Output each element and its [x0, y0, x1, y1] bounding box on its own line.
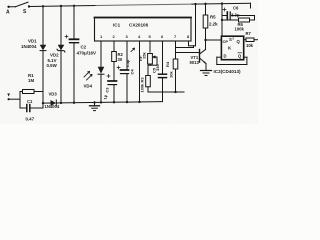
svg-text:C1: C1: [27, 99, 33, 104]
svg-text:3.3μ: 3.3μ: [125, 59, 130, 68]
svg-text:9013: 9013: [190, 60, 200, 65]
svg-text:1μ: 1μ: [103, 94, 108, 99]
svg-text:R4: R4: [165, 61, 170, 67]
svg-text:VD3: VD3: [49, 92, 58, 97]
resistor R7 10k output: [244, 39, 246, 41]
wire pin4: [139, 41, 141, 102]
wire Qbar to D feedback: [217, 56, 222, 58]
svg-text:10k: 10k: [169, 71, 174, 78]
svg-text:0.47: 0.47: [26, 117, 35, 122]
wire pin6: [162, 41, 164, 74]
capacitor C1 0.47: [20, 107, 27, 109]
capacitor C2 470u/16V electrolytic: [70, 38, 79, 40]
wire C6 column from rail: [221, 4, 223, 37]
switch S: [9, 6, 16, 8]
svg-text:C6: C6: [233, 6, 239, 11]
svg-text:CX20106: CX20106: [129, 23, 149, 28]
wire pin8 to rail: [188, 41, 190, 46]
wire pin1: [100, 41, 102, 67]
resistor R5 2.2k: [205, 4, 207, 15]
wire pin3: [126, 41, 128, 70]
zener diode VD2 5.1V 0.5W: [58, 45, 65, 51]
wire R3 R4 ground link: [148, 91, 184, 93]
svg-text:470μ/16V: 470μ/16V: [77, 51, 97, 56]
svg-text:100k: 100k: [235, 27, 245, 32]
svg-text:C4: C4: [130, 69, 135, 75]
svg-text:30: 30: [118, 57, 123, 62]
diode VD1 1N4004: [40, 45, 47, 51]
svg-text:330: 330: [155, 64, 160, 71]
svg-text:3.3μ: 3.3μ: [231, 13, 240, 18]
capacitor C5 330p: [159, 73, 167, 75]
IC U1: IC1 CX20106 receiver amplifier: [95, 18, 192, 42]
svg-text:R7: R7: [246, 31, 252, 36]
node B input terminal: [7, 94, 10, 97]
capacitor C3 1u electrolytic: [108, 80, 117, 82]
resistor R4 10k: [173, 59, 178, 69]
svg-text:1N4004: 1N4004: [45, 104, 60, 109]
wire top supply rail: [29, 6, 96, 7]
svg-text:IC1: IC1: [113, 23, 121, 28]
svg-text:VD1: VD1: [28, 39, 37, 44]
diode VD3 1N4004: [42, 102, 44, 104]
transistor Q1 : VT1 9013: [199, 50, 201, 63]
svg-text:IC2(CD4013): IC2(CD4013): [214, 69, 242, 74]
svg-text:R3: R3: [140, 77, 145, 83]
flip-flop U2: IC2 CD4013 D flip-flop: [221, 36, 243, 60]
svg-text:C2: C2: [81, 45, 87, 50]
resistor R6 100k: [222, 19, 239, 21]
ground symbol on bus: [94, 103, 96, 106]
wire pin5: [149, 41, 151, 52]
svg-text:CP: CP: [223, 39, 229, 44]
wire C2 column: [73, 6, 75, 40]
svg-text:R5: R5: [210, 15, 216, 20]
wire pin2: [113, 41, 115, 52]
resistor R3: [147, 65, 149, 75]
wire VD2 column: [60, 6, 62, 45]
svg-text:10k: 10k: [246, 43, 254, 48]
svg-text:VD2: VD2: [50, 53, 59, 58]
resistor R2: [112, 52, 117, 62]
svg-text:A: A: [6, 10, 10, 16]
svg-text:1M: 1M: [28, 78, 34, 83]
wire pin7: [175, 41, 177, 59]
svg-text:2.2k: 2.2k: [209, 22, 218, 27]
capacitor C6 3.3u: [222, 15, 226, 17]
potentiometer RP 15k: [148, 54, 153, 65]
node A terminal: [7, 6, 9, 8]
wire collector to CP: [204, 39, 206, 41]
photodiode VD4: [98, 67, 105, 74]
svg-text:VD4: VD4: [84, 84, 93, 89]
capacitor C4 3.3u electrolytic: [121, 69, 129, 71]
svg-text:D: D: [224, 54, 227, 59]
svg-text:0.5W: 0.5W: [47, 63, 58, 68]
resistor R1 1M: [19, 92, 21, 109]
svg-text:1N4004: 1N4004: [21, 44, 37, 49]
svg-text:C3: C3: [105, 87, 110, 93]
wire ground bus: [61, 102, 162, 103]
ground for VT1 emitter: [205, 64, 207, 71]
wire VD1 column: [42, 6, 44, 45]
svg-text:100k: 100k: [140, 83, 145, 93]
svg-text:15k: 15k: [142, 52, 147, 59]
